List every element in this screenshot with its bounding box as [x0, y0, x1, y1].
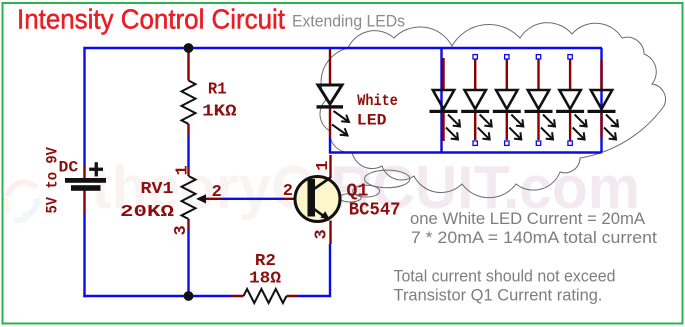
svg-text:LED: LED	[357, 111, 387, 129]
junction dot top	[184, 43, 194, 53]
LED D5	[525, 58, 556, 140]
junction dot bottom	[184, 291, 194, 301]
LED D2	[430, 58, 461, 141]
svg-text:DC: DC	[59, 158, 79, 176]
svg-text:2: 2	[212, 183, 222, 202]
svg-text:2: 2	[283, 182, 293, 201]
svg-text:White: White	[357, 92, 398, 110]
thought bubble 2	[353, 185, 380, 197]
LED D4	[493, 58, 524, 140]
wire white LED cathode to collector rail	[329, 137, 331, 154]
svg-text:1KΩ: 1KΩ	[202, 103, 236, 122]
wire bottom rail	[83, 244, 331, 297]
wire top rail	[85, 47, 603, 49]
resistor R1	[182, 49, 196, 136]
svg-text:Transistor Q1 Current rating.: Transistor Q1 Current rating.	[394, 287, 603, 305]
svg-text:BC547: BC547	[349, 201, 401, 221]
white LED D1	[317, 49, 350, 137]
wire left vertical	[83, 47, 85, 297]
wire R1 to RV1	[187, 136, 189, 167]
thought bubble 1	[365, 170, 410, 188]
LED D7	[588, 60, 619, 140]
svg-text:5V to 9V: 5V to 9V	[44, 147, 62, 214]
svg-text:1: 1	[314, 161, 333, 171]
LED D6	[556, 58, 587, 141]
svg-text:Extending LEDs: Extending LEDs	[292, 13, 405, 31]
cloud thought-bubble outline	[320, 23, 665, 202]
LED D3	[461, 58, 492, 140]
svg-text:3: 3	[312, 229, 331, 239]
svg-text:R2: R2	[255, 252, 276, 271]
svg-text:Total current should not excee: Total current should not exceed	[394, 268, 616, 286]
svg-text:one White LED Current = 20mA: one White LED Current = 20mA	[410, 210, 645, 228]
battery BT1 5V-9V DC	[65, 162, 106, 214]
svg-text:RV1: RV1	[141, 180, 174, 199]
unconnected pin squares top row	[473, 55, 572, 59]
wire LED box right edge	[600, 48, 602, 153]
resistor R2	[232, 289, 298, 303]
thought bubble 3	[339, 194, 361, 202]
wire RV1 wiper to Q1 base	[221, 198, 283, 200]
svg-text:1: 1	[174, 165, 193, 175]
unconnected pin squares bottom row	[473, 141, 572, 145]
svg-text:18Ω: 18Ω	[249, 270, 281, 289]
svg-text:7 * 20mA = 140mA total current: 7 * 20mA = 140mA total current	[411, 229, 657, 247]
wire collector rail / LED box bottom edge	[330, 151, 602, 153]
transistor Q1	[283, 155, 340, 244]
svg-text:3: 3	[172, 225, 191, 235]
svg-text:R1: R1	[208, 81, 227, 100]
wire RV1 to bottom rail	[187, 229, 189, 296]
potentiometer RV1	[182, 167, 222, 229]
svg-text:Intensity Control Circuit: Intensity Control Circuit	[17, 4, 285, 35]
svg-text:20KΩ: 20KΩ	[120, 203, 174, 222]
watermark logo swirl	[6, 182, 37, 220]
wire LED box left edge	[440, 48, 442, 153]
svg-text:Q1: Q1	[346, 182, 368, 202]
